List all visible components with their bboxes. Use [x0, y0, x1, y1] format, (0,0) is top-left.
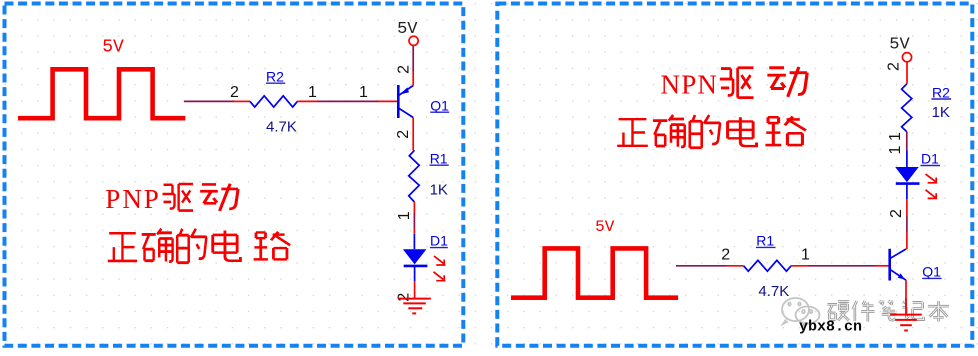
- svg-text:1: 1: [887, 132, 904, 141]
- label R2: [266, 69, 285, 85]
- resistor R2 (right): [902, 84, 912, 132]
- wire R1 to Q1 base (right): [808, 265, 876, 267]
- svg-text:1K: 1K: [430, 182, 448, 199]
- svg-text:NPN: NPN: [661, 70, 719, 100]
- svg-text:R2: R2: [932, 85, 950, 101]
- watermark text ybx8.cn: [799, 319, 862, 336]
- svg-text:1: 1: [801, 247, 810, 264]
- pin number 1 (R1 right pin): [801, 247, 810, 264]
- svg-text:R1: R1: [430, 150, 448, 166]
- svg-text:2: 2: [230, 84, 239, 101]
- text 正确的电路 (right): [617, 115, 806, 148]
- ground (left): [398, 299, 431, 314]
- value 4.7K: [266, 118, 297, 135]
- svg-text:2: 2: [721, 247, 730, 264]
- svg-text:1: 1: [396, 211, 413, 220]
- svg-text:1K: 1K: [932, 104, 950, 121]
- label R1 (left): [430, 150, 449, 166]
- pin number 1 (D1 anode, rotated): [396, 211, 413, 220]
- value 1K (right): [932, 104, 950, 121]
- wire Q1 emitter to 5V: [412, 46, 414, 72]
- pin number 2 (Q1 collector, rotated): [395, 130, 412, 139]
- power node 5V (right top): [889, 35, 911, 62]
- svg-text:2: 2: [888, 209, 905, 218]
- text 正确的电路 (left): [108, 229, 290, 263]
- svg-text:1: 1: [308, 84, 317, 101]
- pin number 2 (Q1 emitter, rotated): [396, 65, 413, 74]
- svg-text:4.7K: 4.7K: [758, 283, 789, 300]
- LED arrows (left D1): [434, 256, 446, 281]
- svg-text:Q1: Q1: [922, 264, 941, 280]
- label Q1 (right): [922, 264, 941, 280]
- label R1 (right): [756, 233, 776, 249]
- pin number 1 (R2 bottom, rotated): [887, 132, 904, 141]
- wire from waveform to R2: [184, 100, 234, 102]
- pin number 2 (D1 cathode, rotated): [888, 209, 905, 218]
- svg-text:PNP: PNP: [105, 184, 161, 214]
- wire waveform to R1 (right): [676, 265, 727, 267]
- text NPN驱动: [661, 67, 808, 100]
- transistor Q1 (PNP): [378, 72, 413, 151]
- diode D1 (LED, right): [895, 150, 919, 199]
- net label 5V (pulse input, right): [595, 218, 615, 236]
- svg-text:R1: R1: [756, 233, 774, 249]
- svg-text:5V: 5V: [889, 35, 910, 54]
- wire D1 to Q1 collector (right): [906, 199, 908, 249]
- watermark text 硬件笔记本: [827, 300, 949, 321]
- label Q1 (left): [430, 97, 449, 113]
- wire R2 to Q1 base: [317, 100, 378, 102]
- resistor R1 (right): [727, 260, 809, 271]
- svg-text:2: 2: [886, 62, 903, 71]
- pin number 1 (Q1 base): [359, 84, 368, 101]
- resistor R1 (left): [409, 150, 420, 202]
- svg-text:5V: 5V: [595, 218, 615, 236]
- svg-text:5V: 5V: [102, 38, 124, 58]
- 5V pulse waveform (right): [511, 248, 678, 297]
- svg-text:1: 1: [887, 145, 904, 154]
- pin number 2 (R2 top, rotated): [886, 62, 903, 71]
- transistor Q1 (NPN, right): [876, 249, 907, 314]
- svg-text:Q1: Q1: [430, 97, 449, 113]
- pin number 1 (R2 right pin): [308, 84, 317, 101]
- watermark WeChat icon: [782, 298, 820, 327]
- wire 5V to R2 (right): [906, 62, 908, 84]
- svg-text:ybx8.cn: ybx8.cn: [799, 319, 862, 336]
- pin number 1 (D1 anode, rotated): [887, 145, 904, 154]
- net label 5V (pulse input, left): [102, 38, 124, 58]
- resistor R2: [234, 96, 317, 107]
- pin number 2 (D1 cathode, rotated): [396, 293, 413, 302]
- wire R2 to D1 (right): [906, 132, 908, 150]
- svg-text:2: 2: [396, 65, 413, 74]
- power node 5V (left): [397, 20, 418, 46]
- diode D1 (LED, left): [403, 234, 428, 298]
- pin number 2 (R1 left pin): [721, 247, 730, 264]
- pin number 2 (R2 left pin): [230, 84, 239, 101]
- 5V pulse waveform (left): [18, 69, 185, 118]
- svg-text:D1: D1: [430, 233, 448, 249]
- svg-text:2: 2: [396, 293, 413, 302]
- svg-text:1: 1: [359, 84, 368, 101]
- svg-text:2: 2: [395, 130, 412, 139]
- label D1 (left): [430, 233, 448, 249]
- value 1K (left): [430, 182, 448, 199]
- svg-text:R2: R2: [266, 69, 284, 85]
- value 4.7K (right): [758, 283, 789, 300]
- text PNP驱动: [105, 184, 238, 214]
- svg-text:4.7K: 4.7K: [266, 118, 297, 135]
- LED arrows (right D1): [926, 174, 937, 199]
- svg-text:D1: D1: [921, 151, 939, 167]
- label R2 (right): [931, 85, 951, 101]
- svg-text:5V: 5V: [397, 20, 418, 39]
- label D1 (right): [921, 151, 941, 167]
- wire R1 to D1: [413, 202, 415, 234]
- ground (right): [890, 298, 922, 331]
